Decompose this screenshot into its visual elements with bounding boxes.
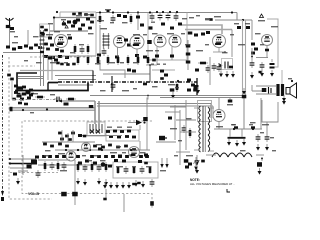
- gnd arrow topright mark: [282, 95, 286, 102]
- gnd arrow f3: [242, 139, 246, 146]
- blob rd2: [194, 34, 198, 37]
- wire: y150 rail: [55, 149, 150, 151]
- capacitor C22: [212, 63, 217, 71]
- resistor R12 bus: [176, 82, 179, 92]
- resistor R16 psu: [189, 128, 192, 138]
- capacitor C4: [81, 24, 85, 27]
- label tl4: [70, 44, 84, 53]
- blob mr2: [187, 79, 197, 92]
- switch SW1 pilot: [159, 136, 167, 141]
- resistor R3: [76, 15, 82, 22]
- tube V5 1st audio: [169, 35, 181, 47]
- wire: box line y17: [54, 18, 96, 32]
- blob v1b: [68, 37, 72, 40]
- resistor Rm1: [87, 55, 90, 65]
- node dot y108: [22, 108, 48, 111]
- capacitor C28 right: [256, 134, 261, 142]
- wire: gray y75.5: [55, 75, 96, 77]
- wire: y160 rail: [38, 159, 70, 161]
- tube V3 2nd IF: [130, 35, 144, 49]
- label scattered value texts: [14, 15, 278, 171]
- blob row a: [44, 55, 69, 59]
- choke L3 filter: [212, 153, 252, 157]
- wire: speaker return U: [262, 100, 278, 122]
- blob below dash: [103, 198, 106, 201]
- wire: U stub: [266, 122, 268, 135]
- x-mark b: [96, 130, 100, 134]
- blob tm2: [123, 15, 127, 18]
- gnd arrow row1 d: [104, 179, 108, 186]
- blob tm5: [97, 54, 147, 59]
- label model line1: [190, 178, 200, 182]
- resistor Rm7: [147, 55, 150, 65]
- wire: T2 leads: [194, 108, 214, 151]
- gnd arrow row2 4: [127, 182, 131, 189]
- label audio toprow: [107, 127, 132, 128]
- resistor R15: [198, 62, 208, 65]
- label au2: [44, 144, 121, 156]
- wire: v117 down: [117, 48, 119, 58]
- blob audio inbox: [109, 135, 136, 138]
- wire: T2 upper box: [198, 101, 212, 122]
- wire: choke leads: [206, 154, 264, 156]
- blob rm2: [259, 71, 262, 73]
- wire: rail corner right: [215, 11, 252, 20]
- wire: filter bar: [228, 137, 246, 139]
- wire: heavy dashdot bus: [58, 81, 197, 83]
- svg-text:ALL VOLTAGES MEASURED AT ··: ALL VOLTAGES MEASURED AT ··: [190, 182, 235, 186]
- wire: detector box: [148, 13, 187, 61]
- blob border parts: [7, 74, 14, 81]
- wire: v244 single: [243, 98, 245, 130]
- resistor Rm2: [97, 55, 100, 65]
- gnd arrow mc2: [171, 92, 175, 99]
- wire: v261 single: [260, 98, 262, 129]
- capacitor C25: [150, 179, 155, 187]
- gnd arrow row2 1: [109, 182, 113, 189]
- diode D3 mark: [219, 63, 223, 68]
- blob det1: [149, 26, 153, 29]
- wire: heavy bus step: [15, 83, 88, 91]
- label vol text: [28, 192, 39, 196]
- wire: v250 seg: [251, 48, 253, 60]
- wire: v137 down: [136, 49, 138, 57]
- label det row: [151, 64, 166, 65]
- wire: gray y85: [58, 84, 93, 86]
- wire: det leads: [157, 47, 172, 60]
- label c33: [270, 137, 274, 138]
- wire: mid wire y56: [42, 55, 96, 57]
- blob ml1: [18, 102, 28, 106]
- label rr1: [234, 23, 250, 24]
- blob au1: [98, 148, 148, 158]
- wire: h57 right: [256, 57, 268, 59]
- tube V1 converter: [54, 31, 68, 48]
- capacitor C21: [206, 65, 211, 73]
- label tl3: [48, 23, 53, 24]
- coil T2 primary: [199, 106, 201, 152]
- wire: outer chassis dash-dot border left: [2, 55, 4, 191]
- gnd arrow row1 e: [134, 180, 145, 188]
- label rd1: [182, 17, 213, 21]
- gnd arrow f4: [256, 144, 260, 151]
- wire: c30 link: [261, 157, 263, 161]
- wire: vol wires: [9, 155, 36, 176]
- coil T2 secondary: [208, 107, 210, 152]
- blob lc extra: [12, 91, 33, 100]
- gnd arrow row2 2: [115, 182, 119, 189]
- twin arrows J3: [160, 158, 169, 171]
- blob au row145: [43, 143, 128, 149]
- blob bus comp: [194, 85, 199, 89]
- resistor R14: [66, 98, 76, 101]
- wire: v100 down: [99, 25, 101, 56]
- gnd arrow vol: [16, 178, 20, 185]
- blob lc4: [27, 97, 31, 100]
- wire: gray h70: [20, 70, 93, 72]
- resistor Ra4: [91, 162, 94, 172]
- wire: ift3 bottom wire: [78, 135, 122, 137]
- wire: step y74: [103, 73, 150, 75]
- wire: gray band y76.5: [18, 76, 44, 78]
- wire: thick y108 pair: [10, 108, 95, 110]
- transformer T2 core: [203, 106, 205, 152]
- tube V9a det-amp: [82, 143, 91, 152]
- gnd arrow row2 0: [103, 182, 107, 189]
- wire: bus end drop: [196, 78, 198, 95]
- resistor R4: [85, 14, 90, 21]
- capacitor C1: [24, 45, 28, 48]
- tube V10 output audio: [129, 147, 140, 158]
- pilot P1: [193, 161, 199, 171]
- svg-text:VOL.B: VOL.B: [28, 192, 39, 196]
- label model line2: [190, 182, 235, 186]
- wire: box line y12: [60, 11, 96, 13]
- blob au upperleft: [58, 132, 75, 141]
- wire: antenna lead: [10, 26, 29, 48]
- wire: audio top box: [106, 130, 139, 141]
- blob bus b: [143, 83, 147, 86]
- label delta: [258, 14, 265, 21]
- blob det3: [170, 27, 174, 30]
- gnd arrow d2: [195, 167, 199, 174]
- blob round mark: [73, 20, 78, 25]
- resistor R8: [130, 14, 133, 24]
- blob lc5: [64, 103, 69, 106]
- wire: au left verts: [62, 130, 73, 142]
- wire: psu left horiz: [156, 107, 196, 152]
- wire: right box: [267, 19, 282, 84]
- node blob heater junction: [242, 88, 247, 98]
- coil L0 antenna base: [6, 25, 14, 30]
- capacitor Ca2: [62, 162, 67, 170]
- resistor R7: [99, 14, 102, 24]
- wire: thick y31: [50, 30, 88, 32]
- wire: filter rail y129: [214, 128, 262, 130]
- wire: audio gray box: [113, 162, 158, 178]
- blob tun row2: [34, 43, 50, 51]
- capacitor C2: [61, 19, 66, 26]
- tube V2 1st IF: [114, 36, 126, 48]
- capacitor Cb1: [124, 166, 129, 174]
- capacitor Ca4: [97, 164, 102, 172]
- resistor Rm4: [117, 55, 120, 65]
- tube V11 rectifier: [213, 110, 225, 122]
- resistor R6: [87, 44, 90, 54]
- wire: thick gray elbow B: [185, 29, 232, 31]
- coil T4 3rd IF: [90, 124, 102, 133]
- blob tun1: [29, 47, 33, 50]
- tube V9 1st audio: [66, 151, 76, 161]
- wire: v232 drop: [231, 30, 233, 58]
- blob tm1: [117, 14, 121, 17]
- gnd arrow f1: [227, 139, 231, 146]
- wire: v75 drop: [74, 160, 76, 205]
- transformer T3 output: [276, 84, 284, 96]
- wire: y97.5 run: [160, 97, 242, 99]
- wire: rect lead: [218, 98, 220, 110]
- resistor Rm0: [77, 55, 80, 65]
- diode D2: [195, 155, 205, 166]
- wire: heater y103.5: [97, 103, 211, 105]
- label tl1: [12, 42, 18, 43]
- potentiometer VOL: [27, 156, 40, 169]
- blob bl end: [150, 201, 154, 206]
- wire: speaker feed: [252, 85, 276, 94]
- capacitor C31 left: [182, 125, 187, 133]
- label ant base: [10, 31, 15, 32]
- wire: v106 cross: [105, 189, 107, 200]
- coil L2 tuning pair: [40, 30, 45, 58]
- x-mark a: [90, 130, 94, 134]
- resistor Rm6: [137, 55, 140, 65]
- speaker SPK: [286, 83, 297, 98]
- gnd arrow c16: [250, 72, 254, 79]
- capacitor C24 vol: [36, 170, 41, 178]
- blob lc1: [14, 85, 33, 92]
- wire: dashed y66: [8, 65, 35, 67]
- blob mr1: [195, 69, 199, 72]
- blob rm1: [229, 66, 233, 69]
- capacitor Ca3: [83, 164, 88, 172]
- gnd arrow row1 a: [76, 178, 80, 185]
- label xx1: [105, 9, 111, 12]
- gnd arrow c30: [258, 168, 262, 175]
- blob tuner extra: [78, 21, 94, 31]
- capacitor C3: [71, 25, 75, 28]
- wire: heavy y93.5: [17, 93, 34, 95]
- gnd arrow c14: [260, 70, 264, 77]
- wire: v93: [92, 71, 94, 82]
- wire: audio dashed box: [22, 121, 152, 208]
- blob v147 part: [143, 117, 148, 121]
- wire: y142 rail: [42, 141, 95, 143]
- wire: main rail y12.5: [96, 12, 225, 14]
- gnd arrow f2: [235, 140, 239, 147]
- gnd arrow row1 b: [83, 179, 87, 186]
- gnd arrow c15: [270, 70, 274, 77]
- blob row y64: [60, 63, 75, 66]
- gnd arrow rm a: [219, 71, 229, 78]
- capacitor C19 bus: [111, 82, 116, 90]
- resistor Ra5: [105, 162, 108, 172]
- tube V7 osc-mix: [262, 35, 273, 46]
- blob corner mark: [227, 189, 230, 192]
- wire: v147 drop: [146, 98, 148, 151]
- resistor Rb2: [133, 166, 136, 174]
- capacitor C20: [54, 97, 62, 102]
- wire: heater corners: [211, 104, 213, 119]
- wire: det L wires: [146, 60, 175, 70]
- wire: v210 drop: [209, 57, 211, 85]
- blob ift3 top: [89, 105, 94, 108]
- blob ift3 bottom: [78, 134, 86, 137]
- wire: bottom row wire: [3, 52, 42, 54]
- blob psu sm: [168, 117, 172, 120]
- wire: verticals x48 x52: [48, 56, 52, 80]
- wire: psu top y97: [160, 97, 203, 99]
- resistor R13: [35, 96, 45, 99]
- blob au row156: [42, 155, 149, 158]
- antenna ANT: [6, 18, 14, 26]
- blob det2: [161, 23, 165, 26]
- resistor Ra2: [57, 161, 60, 171]
- capacitor Cb2: [140, 166, 145, 174]
- tube V6 output: [213, 35, 226, 48]
- node dots rail: [99, 11, 178, 14]
- blob det5: [147, 40, 152, 44]
- blob vf1: [48, 57, 60, 65]
- wire: filter stubs: [230, 129, 242, 137]
- wire: v12 seg: [11, 80, 13, 100]
- resistor Rm3: [107, 55, 110, 65]
- gnd arrow psu top: [196, 87, 200, 94]
- wire: v140 audio link: [139, 125, 141, 130]
- resistor Ra1: [44, 161, 47, 171]
- capacitor C11: [174, 13, 179, 21]
- gnd arrow row2 3: [121, 182, 125, 189]
- blob rr2: [251, 43, 258, 55]
- wire: v140 down: [139, 141, 141, 150]
- blob lc2: [26, 91, 31, 94]
- capacitor C14: [260, 62, 265, 70]
- tube V4 det/avc: [154, 35, 166, 47]
- wire: v124 bottom: [123, 194, 125, 212]
- coil T1 IF transformer: [100, 28, 110, 49]
- blob col a: [186, 45, 191, 64]
- jack J1: [61, 192, 66, 197]
- blob audio toprow: [106, 130, 131, 133]
- wire: gray y79.5: [58, 79, 96, 81]
- blob under V1: [55, 48, 64, 52]
- wire: IFT3 box: [87, 122, 105, 136]
- blob gnd row end: [132, 182, 141, 185]
- capacitor C9: [158, 13, 163, 21]
- wire: step x100: [100, 60, 125, 78]
- blob filter marks: [231, 124, 255, 129]
- label delta marks: [62, 21, 68, 28]
- wire: heavy black elbow: [17, 73, 37, 91]
- capacitor C10: [166, 13, 171, 21]
- blob det4: [178, 23, 182, 26]
- wire: psu left verts: [175, 100, 186, 165]
- blob v1a: [48, 37, 54, 47]
- gnd arrow c33: [265, 144, 269, 151]
- resistor R17 psu top: [227, 98, 233, 106]
- capacitor C13: [246, 26, 250, 29]
- wire: gray y99.5: [12, 99, 55, 101]
- blob rd3: [201, 33, 205, 36]
- label det7: [151, 22, 185, 35]
- wire: gray band y78.5: [18, 78, 44, 80]
- jack J2: [72, 192, 78, 197]
- wire: heater y106: [97, 105, 213, 107]
- node dot bus: [177, 80, 179, 82]
- gnd arrow rm b: [231, 71, 235, 78]
- capacitor C23: [217, 64, 222, 72]
- wire: dashed mid: [30, 56, 92, 58]
- label lc6: [33, 93, 55, 95]
- wire: v267 down: [266, 46, 268, 59]
- resistor Rb3: [149, 166, 152, 174]
- resistor Ra3: [77, 162, 80, 172]
- coil L1 loop blobs: [6, 46, 16, 51]
- blob spk top mark: [288, 78, 293, 82]
- capacitor C41 spk: [262, 87, 271, 94]
- resistor R2: [67, 21, 71, 24]
- blob rd4: [206, 31, 210, 34]
- blob tl2 bracket: [40, 24, 50, 37]
- capacitor C17: [222, 59, 233, 70]
- diode D1 det: [128, 120, 146, 125]
- capacitor C5: [80, 46, 85, 54]
- wire: v150 to bus: [149, 64, 151, 82]
- wire: tuner dashed border vertical: [9, 57, 52, 199]
- wire: y95.5 run: [90, 95, 242, 100]
- capacitor Ca1: [50, 162, 55, 170]
- blob tm3: [136, 16, 144, 27]
- wire: y52 stub: [213, 48, 226, 53]
- capacitor C18: [152, 59, 156, 62]
- fuse F1: [184, 159, 192, 168]
- capacitor C6: [111, 15, 116, 23]
- resistor R1: [18, 46, 23, 49]
- capacitor C7: [102, 48, 107, 56]
- resistor Rb1: [117, 166, 120, 174]
- wire: heater pair down: [243, 20, 246, 95]
- wire: gray y101 arrow: [56, 100, 95, 103]
- wire: ift verticals: [95, 101, 99, 124]
- resistor Rm5: [127, 55, 130, 65]
- node dot fr1: [233, 128, 254, 130]
- wire: v196 seg: [195, 157, 197, 166]
- capacitor C33 spk: [265, 134, 270, 142]
- wire: thick gray elbow A: [182, 25, 222, 34]
- wire: L2 pair extension: [41, 58, 44, 86]
- blob lc3: [17, 95, 22, 98]
- ground arrow at outer border end: [1, 191, 4, 201]
- wire: box corner x60: [59, 12, 61, 18]
- node dots box: [53, 11, 58, 19]
- blob left end marks: [10, 107, 13, 112]
- blob audio dense: [78, 159, 148, 168]
- blob step parts: [127, 69, 136, 73]
- blob toprow box: [72, 12, 94, 16]
- node dot r243: [242, 19, 244, 21]
- wire: y165 rail: [38, 164, 113, 166]
- blob tm4: [124, 39, 131, 47]
- capacitor C8: [150, 13, 155, 21]
